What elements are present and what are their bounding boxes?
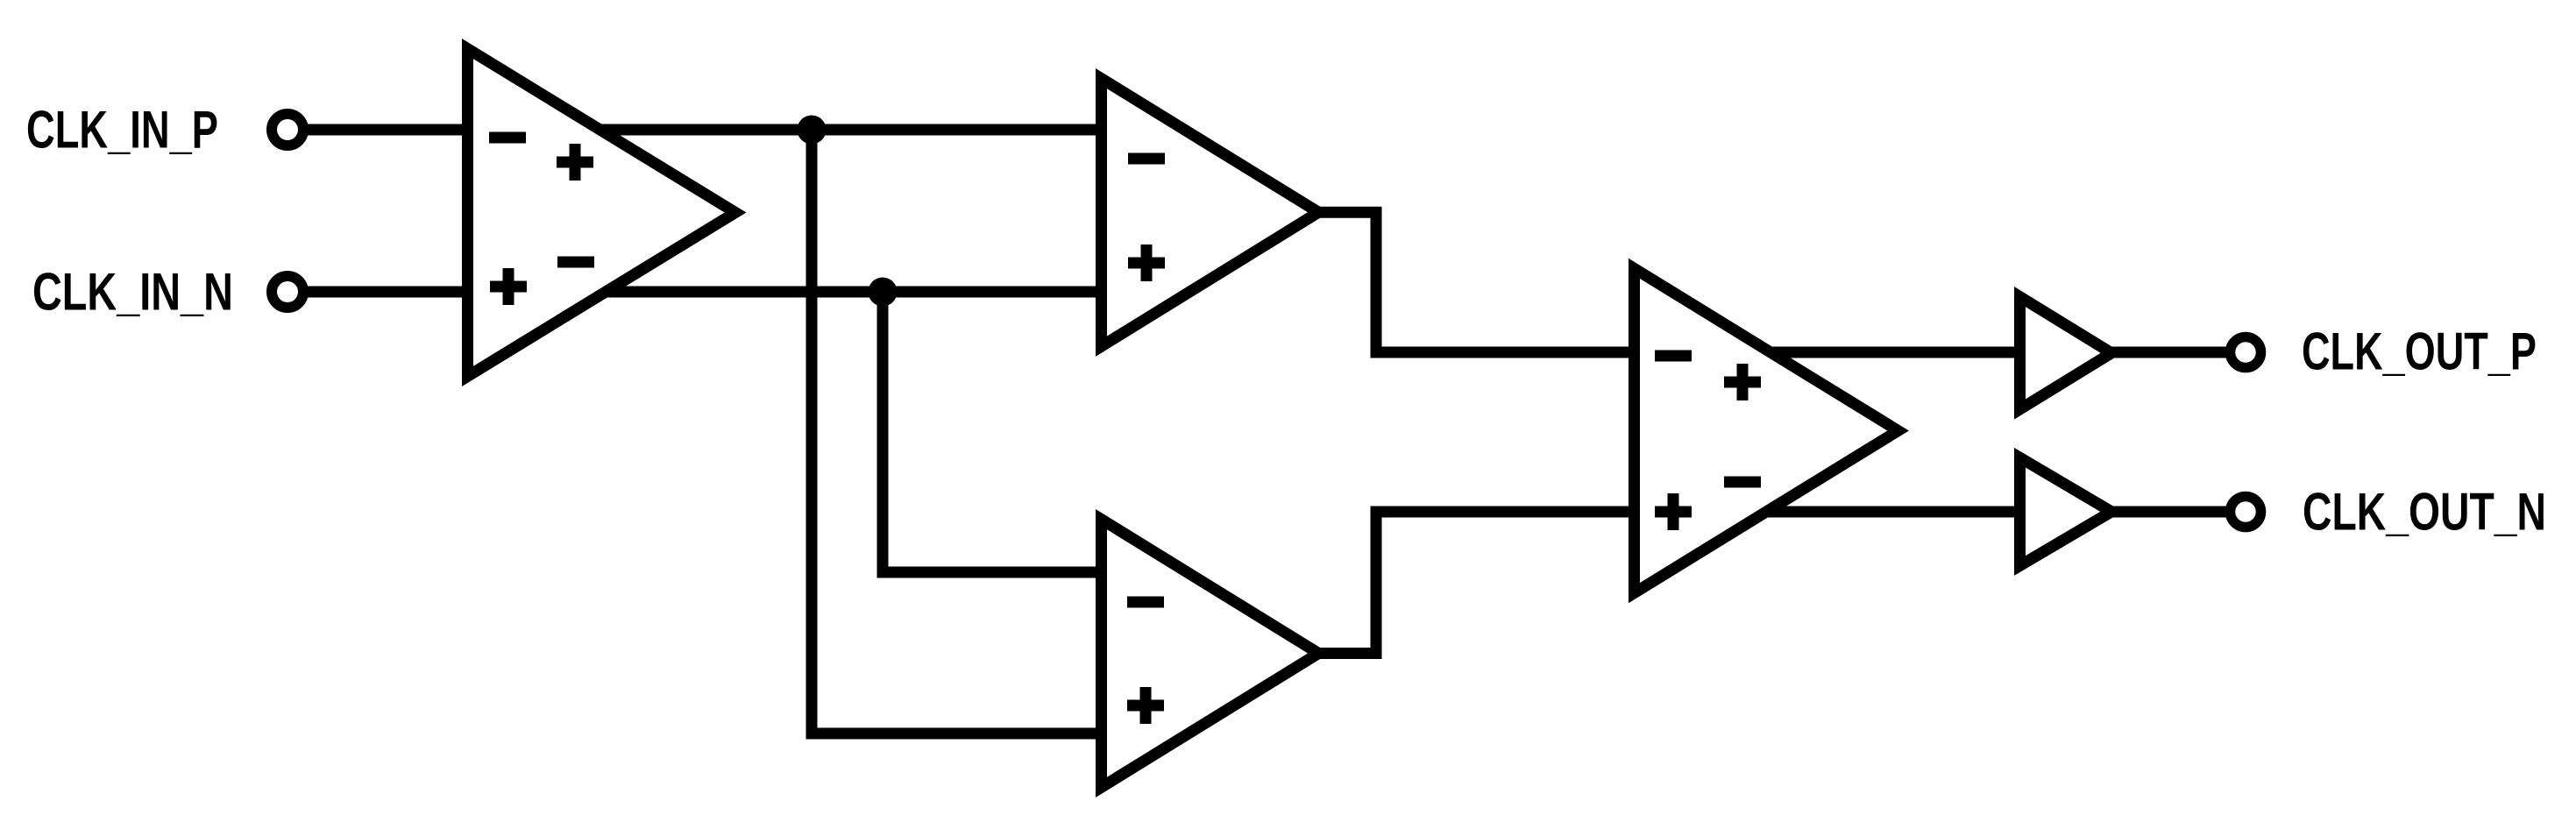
U4 non-inverting input label + xyxy=(1655,493,1692,530)
svg-text:CLK_IN_P: CLK_IN_P xyxy=(26,102,218,160)
wire from node A down to U3 non-inverting input xyxy=(812,130,1102,733)
buffer U6 bottom output buffer xyxy=(2020,457,2112,565)
U2 non-inverting input label + xyxy=(1128,244,1165,281)
U3 non-inverting input label + xyxy=(1127,687,1164,724)
U2 inverting input label - xyxy=(1128,153,1165,165)
U4 non-inverting output label + xyxy=(1724,364,1761,400)
U1 inverting input label - xyxy=(489,132,526,144)
svg-text:CLK_OUT_N: CLK_OUT_N xyxy=(2303,483,2546,542)
buffer U5 top output buffer xyxy=(2020,297,2112,409)
terminal CLK_IN_P xyxy=(272,114,303,145)
svg-text:CLK_OUT_P: CLK_OUT_P xyxy=(2302,322,2537,381)
terminal CLK_IN_N xyxy=(272,276,303,308)
U4 inverting output label - xyxy=(1724,477,1761,488)
wire U2 output to U4 inverting input xyxy=(1318,212,2025,352)
U4 inverting input label - xyxy=(1655,351,1692,362)
U1 inverting output label - xyxy=(557,257,594,268)
U3 inverting input label - xyxy=(1127,597,1164,608)
wire U6 output to CLK_OUT_N terminal xyxy=(2108,507,2232,518)
wire CLK_IN_P rail from input terminal through U1 to U2 inverting input xyxy=(302,124,1101,136)
wire CLK_IN_N rail from input terminal through U1 to U2 non-inverting input xyxy=(302,287,1101,298)
svg-text:CLK_IN_N: CLK_IN_N xyxy=(32,263,233,322)
node B junction dot on CLK_IN_N rail xyxy=(869,278,898,307)
wire U5 output to CLK_OUT_P terminal xyxy=(2108,347,2232,358)
comparator U2 top middle buffer xyxy=(1102,79,1319,347)
wire U3 output to U4 non-inverting input xyxy=(1318,512,2025,654)
terminal CLK_OUT_P xyxy=(2231,337,2261,368)
op-amp U1 input differential amplifier xyxy=(468,49,736,377)
op-amp U4 output differential amplifier xyxy=(1635,268,1898,592)
U1 non-inverting input label + xyxy=(490,268,527,305)
node A junction dot on CLK_IN_P rail xyxy=(798,116,827,145)
comparator U3 bottom middle buffer xyxy=(1102,520,1319,788)
wire from node B down to U3 inverting input xyxy=(883,292,1102,572)
U1 non-inverting output label + xyxy=(557,144,593,181)
terminal CLK_OUT_N xyxy=(2231,497,2261,528)
